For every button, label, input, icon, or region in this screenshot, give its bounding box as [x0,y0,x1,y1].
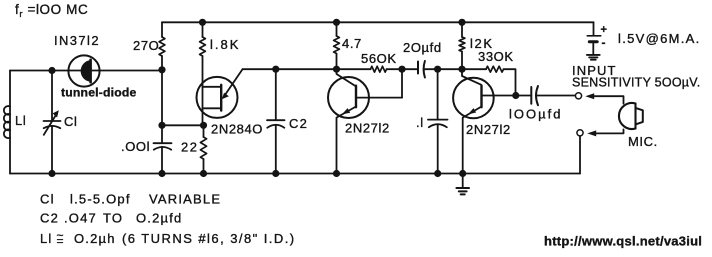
svg-text:4.7: 4.7 [342,36,362,51]
svg-text:http://www.qsl.net/va3iul: http://www.qsl.net/va3iul [544,234,702,249]
node 330K/base/100ufd junction [512,92,519,99]
microphone MIC [634,104,636,129]
svg-text:tunnel-diode: tunnel-diode [61,85,137,99]
wire 22 bottom lead [203,159,205,174]
capacitor C1 variable [44,120,61,122]
node tunnel-diode / 270 junction [158,66,165,73]
svg-text:Ll: Ll [15,113,26,128]
wire .1 upper lead [437,69,439,119]
inductor L1 [4,106,10,138]
capacitor .001 [154,142,172,144]
svg-text:SENSITIVITY 5OOµV.: SENSITIVITY 5OOµV. [572,76,700,90]
tunnel diode 1N3712 [68,55,99,86]
wire C1 branch lower [51,126,53,174]
svg-text:LlO.2µh(6 TURNS #l6, 3/8" I.D.: LlO.2µh(6 TURNS #l6, 3/8" I.D.) [40,231,296,246]
terminal output top [575,93,581,99]
wire C2 upper lead [275,69,277,120]
wire gate feed vertical [161,70,163,126]
ground battery [587,54,600,56]
wire 12K bottom lead [461,52,463,70]
wire bottom terminal riser [579,136,581,173]
wire mic bottom lead [593,129,624,133]
resistor 1.8K [200,37,206,56]
svg-text:l.5V@6M.A.: l.5V@6M.A. [618,31,701,46]
wire 12K top lead [461,22,463,37]
terminal output bottom [577,130,583,136]
svg-text:+: + [601,24,607,36]
node 12K rail junction [458,19,465,26]
wire 22 top lead [203,125,205,137]
wire 100ufd out [537,95,575,97]
wire .001 lower lead [161,147,163,174]
node 560K/20ufd junction [398,66,405,73]
capacitor C2 [267,119,285,121]
svg-text:=: = [57,234,64,248]
node C1 bottom junction [48,170,55,177]
svg-text:C2.O47TOO.2µfd: C2.O47TOO.2µfd [40,211,183,226]
arrow bottom pointing at terminal [587,130,596,136]
wire 20ufd out [425,68,463,70]
svg-text:2N27l2: 2N27l2 [466,122,511,137]
svg-text:Cl: Cl [64,114,77,129]
resistor 4.7 [334,36,340,54]
wire 1.8K top lead [202,22,204,37]
svg-text:C2: C2 [289,116,308,131]
node C1 top junction [48,67,55,74]
wire C1 branch upper [51,71,53,121]
resistor 270 [159,37,165,56]
node 22 top junction [200,122,207,129]
resistor 560K [371,66,387,72]
node C2 bottom junction [272,170,279,177]
capacitor 100ufd [530,87,532,104]
transistor Q3 2N2712 [453,78,494,119]
svg-text:27O: 27O [133,38,159,53]
wire top-left horizontal to tunnel diode node [10,70,162,72]
svg-text:MIC.: MIC. [628,134,658,149]
node Q2 emitter bottom junction [333,170,340,177]
node Q3 emitter bottom junction [459,170,466,177]
node .1 top junction [434,66,441,73]
wire left rail vertical [9,71,11,174]
wire bottom ground rail [10,173,580,175]
ground main [462,174,464,188]
wire gate to bypass link [162,124,204,126]
arrow top pointing at terminal [585,93,594,99]
node .001 top junction [158,122,165,129]
resistor 22 [200,137,206,159]
node 1.8K rail junction [199,19,206,26]
svg-text:.OOl: .OOl [121,139,150,154]
svg-text:fr =lOO MC: fr =lOO MC [15,2,88,20]
transistor Q2 2N2712 [328,77,369,118]
capacitor 20ufd [417,62,419,74]
node 4.7 rail junction [333,19,340,26]
wire 4.7 bottom lead [336,54,338,70]
svg-text:l.8K: l.8K [210,37,240,52]
wire C2 lower lead [275,125,277,174]
svg-text:IN37l2: IN37l2 [54,33,100,48]
wire 330K left lead [462,68,486,70]
wire 270 top lead [161,22,163,37]
resistor 330K [486,66,504,72]
capacitor .1 [428,119,448,121]
svg-text:22: 22 [181,140,198,155]
wire 1.8K bottom lead / gate line [202,56,204,125]
wire 560K to cap [387,68,419,70]
node C2 top junction [272,66,279,73]
wire 330K right lead and drop [504,69,516,95]
svg-text:2Oµfd: 2Oµfd [403,40,442,55]
wire drain run y=69 [243,68,371,70]
transistor U1 2N2840 [197,77,238,118]
wire to 100ufd [516,95,532,97]
svg-text:-: - [602,36,606,50]
wire top supply rail [162,21,594,23]
wire 4.7 top lead [336,22,338,36]
svg-text:56OK: 56OK [361,51,397,66]
svg-text:.l: .l [416,115,424,130]
node Q2 collector junction [333,66,340,73]
node .1 bottom junction [434,170,441,177]
svg-text:2N284O: 2N284O [211,122,263,137]
wire battery drop [593,22,595,35]
resistor 12K [459,37,465,52]
svg-text:Cll.5-5.OpfVARIABLE: Cll.5-5.OpfVARIABLE [40,191,221,206]
wire .001 upper lead [161,125,163,143]
wire mic top lead [591,96,624,103]
battery B1 1.5V [587,35,600,37]
svg-text:33OK: 33OK [478,49,514,64]
wire 270 bottom lead [161,56,163,70]
svg-text:lOOµfd: lOOµfd [509,107,562,122]
wire Q2 base riser [401,69,403,97]
svg-text:2N27l2: 2N27l2 [345,121,390,136]
node .001 bottom junction [158,170,165,177]
wire .1 lower lead [437,124,439,173]
node Q3 collector junction [458,66,465,73]
node 22 bottom junction [200,170,207,177]
